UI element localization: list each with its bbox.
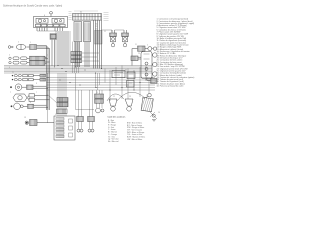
svg-text:15: 15 [96, 92, 98, 94]
svg-text:16: 16 [96, 24, 98, 26]
fuse cells [56, 118, 64, 121]
wires below blocks [75, 42, 77, 67]
rectifier small box [127, 81, 135, 88]
svg-text:11: 11 [135, 44, 137, 46]
main harness sheath [95, 31, 103, 45]
harness wires right of strip [93, 20, 95, 68]
svg-text:18: 18 [24, 117, 26, 119]
svg-text:13: 13 [111, 31, 113, 33]
battery 17 [141, 97, 153, 111]
starter relay block [112, 71, 125, 78]
oil pressure boot right [125, 99, 133, 106]
svg-text:Sb : Bleu ciel: Sb : Bleu ciel [108, 141, 119, 143]
wire [111, 30, 113, 33]
svg-text:14: 14 [77, 116, 79, 118]
svg-text:6: 6 [44, 15, 45, 17]
svg-text:32: 32 [80, 11, 82, 13]
ignition switch 1 terminals [8, 46, 11, 49]
svg-text:1: 1 [18, 42, 19, 44]
rear brake switch 20 [151, 79, 158, 84]
left harness bus [46, 46, 48, 110]
CDI feed wires [96, 90, 98, 94]
side stand switch 26 [150, 112, 157, 119]
ignition coil 13 left [110, 33, 117, 36]
flasher relay 11 [138, 46, 146, 51]
battery terminal [148, 93, 152, 97]
mid drop wires right section [104, 69, 106, 83]
svg-text:32. Faisceau principal du cadr: 32. Faisceau principal du cadre [157, 86, 184, 88]
wires to bus [37, 45, 47, 47]
switch connector [30, 45, 37, 50]
harness connector pair mid [57, 98, 68, 102]
svg-text:13: 13 [96, 29, 98, 31]
wire [26, 46, 29, 48]
lower bus lines right half [47, 77, 156, 79]
wire to fuse box [37, 122, 54, 124]
ground drop wire [47, 73, 49, 123]
wire drops [109, 90, 111, 101]
bundle into ladder [72, 42, 74, 52]
CDI unit block [74, 22, 82, 42]
spark plug connector right [88, 117, 95, 122]
headlight 7 [13, 94, 27, 101]
svg-text:12: 12 [113, 96, 115, 98]
horn 4 [148, 47, 152, 51]
rear turn signal left 25 [153, 72, 157, 76]
svg-text:28: 28 [129, 96, 131, 98]
svg-text:Code des couleurs: Code des couleurs [108, 117, 127, 119]
starter relay 18 [26, 122, 28, 124]
speedometer cable eyelet [49, 12, 52, 14]
ground symbol [152, 119, 156, 121]
alternator leads [96, 103, 98, 108]
wires [33, 85, 47, 87]
pin number column right of strip [104, 12, 109, 14]
component legend list [157, 18, 195, 88]
coil secondary wires right [89, 90, 91, 117]
svg-text:23: 23 [138, 53, 140, 55]
speedometer dial [36, 18, 48, 23]
wire [51, 40, 53, 67]
handlebar switch connector block [30, 56, 46, 60]
extra harness verticals [69, 31, 71, 66]
tachometer dial [52, 18, 64, 23]
svg-text:17: 17 [146, 95, 148, 97]
fanout wires [82, 52, 100, 54]
spark plug 14 right pair [88, 129, 91, 132]
front brake switch 21 chain [12, 75, 13, 76]
svg-text:10: 10 [55, 114, 57, 116]
wires from switch connectors to bus [45, 56, 47, 58]
tail lamp assembly 23 [141, 52, 152, 79]
svg-text:Schéma électrique de Suzuki Co: Schéma électrique de Suzuki Condor avec … [3, 4, 62, 7]
battery feed wires [78, 90, 80, 117]
pin number column left of strip [69, 11, 72, 13]
svg-text:26: 26 [158, 112, 160, 114]
bundle into fuse box [57, 73, 59, 109]
harness junction connectors [71, 52, 82, 55]
alternator connector 15 [95, 94, 104, 98]
indicator lamp row [36, 24, 41, 27]
svg-text:15: 15 [96, 26, 98, 28]
clutch switch chain [12, 79, 13, 80]
connector above fuse box [57, 109, 68, 114]
ignition coil 13 right [122, 33, 129, 36]
connector to tail lamp [131, 56, 138, 61]
position lamp 9 [14, 103, 21, 110]
regulator block [84, 22, 91, 42]
tail light bulb [153, 62, 157, 66]
front turn signal 8 [10, 86, 12, 88]
diode block [127, 72, 135, 79]
bent feed wire [75, 73, 77, 110]
svg-text:L/W : Bleu et Blanc: L/W : Bleu et Blanc [127, 138, 142, 141]
main connector strip [73, 14, 102, 21]
harness arch right [117, 92, 145, 101]
neutral switch boot left [109, 99, 117, 106]
wire [148, 78, 150, 94]
ignition switch 1 body [16, 44, 26, 49]
spark plug 14 left pair [77, 129, 80, 132]
cluster harness drop [57, 31, 59, 66]
instrument cluster 6 [34, 17, 68, 28]
wire [50, 14, 52, 17]
component number labels [12, 31, 160, 119]
wire [123, 30, 125, 33]
wires from cluster down [36, 28, 38, 32]
diagonal harness wire [48, 95, 58, 104]
svg-text:20: 20 [125, 70, 127, 72]
spark plug connector left [77, 117, 84, 122]
junction dots [57, 65, 58, 66]
svg-text:21: 21 [12, 72, 14, 74]
harness arch left [107, 94, 124, 101]
headlight connector [29, 94, 35, 97]
fuse box 10 [54, 116, 75, 140]
stator coil [96, 108, 101, 113]
fuse box terminals [69, 119, 73, 123]
rear turn signal right 24 [153, 53, 157, 57]
left handlebar switch 3 [9, 61, 11, 63]
wire [145, 48, 148, 50]
ladder to bus wires [72, 63, 74, 73]
right handlebar switch 2 [9, 57, 11, 59]
connector block 22 [50, 34, 57, 40]
harness wires extended to lower bus [95, 73, 97, 88]
main harness bus lines [4, 65, 152, 67]
svg-text:22: 22 [104, 31, 106, 33]
